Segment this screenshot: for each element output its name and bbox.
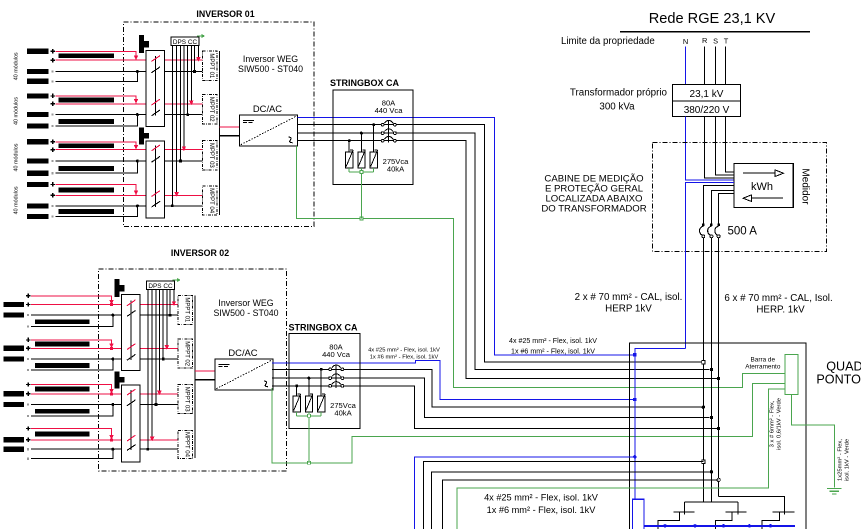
svg-text:MPPT 04: MPPT 04 <box>208 188 214 214</box>
label 80A 440 Vca stringbox 1 <box>375 98 404 115</box>
switch blade - (black) group y=114.6 <box>152 110 161 116</box>
svg-text:2 x # 70 mm² - CAL, isol.: 2 x # 70 mm² - CAL, isol. <box>575 292 683 303</box>
switch blade + (red) group y=149.6 <box>152 145 161 151</box>
wire S inverter1 AC out <box>297 133 709 369</box>
PV string array 2.3 (40 módulos) <box>3 382 89 417</box>
wire - string 1.3a (black) to MPPT <box>56 160 203 162</box>
wire DC+ to converter 1 (red) <box>220 126 240 128</box>
fuse F2 500A (phase S) <box>708 224 713 238</box>
svg-text:40 módulos: 40 módulos <box>14 97 20 125</box>
switch blade + (red) group y=195.3 <box>152 191 161 197</box>
bus S vertical in quadro <box>710 369 712 501</box>
svg-text:1x25mm² - Flex,: 1x25mm² - Flex, <box>838 439 844 481</box>
wire + string 2.4b (red) to MPPT <box>31 439 178 441</box>
DPS wire black group 2.3 <box>155 289 158 405</box>
wire - string 1.2a (black) to MPPT <box>56 114 203 116</box>
node S / stringbox1 <box>710 368 713 371</box>
meter arrow out (left-pointing) <box>743 195 783 202</box>
node PE2 at varistor drop <box>307 461 310 464</box>
svg-text:MPPT 03: MPPT 03 <box>183 387 189 413</box>
svg-text:MPPT 01: MPPT 01 <box>208 53 214 79</box>
MPPT 01 box inverter 1 <box>203 51 217 81</box>
quadro geral box <box>629 343 806 529</box>
node T / stringbox2 <box>717 427 720 430</box>
node - merge 1.2 <box>136 113 139 116</box>
DPS wire red group 1.4 <box>174 45 178 196</box>
fuse F1 500A (phase R) <box>700 224 705 238</box>
svg-text:440 Vca: 440 Vca <box>375 106 404 115</box>
node PE1 at varistor drop <box>360 217 363 220</box>
node varistor ground 1 <box>360 170 363 173</box>
svg-text:4x #25 mm² - Flex, isol. 1kV: 4x #25 mm² - Flex, isol. 1kV <box>368 348 440 354</box>
switch blade + (red) group y=60.2 <box>152 56 161 62</box>
label 275Vca 40kA stringbox 1 <box>383 157 410 174</box>
label: Limite da propriedade <box>561 36 655 47</box>
DPS wire black group 1.2 <box>186 45 189 116</box>
varistor tap 1.2 <box>360 132 363 152</box>
wire DC- to converter 1 <box>220 135 240 137</box>
wire + string 1.3b (red) to MPPT <box>56 149 203 151</box>
varistor tap 2.1 <box>320 368 323 396</box>
label DC/AC inverter 1 <box>253 103 282 114</box>
feeder branch T header <box>719 496 785 514</box>
DC switch box 2.2 <box>122 385 141 462</box>
svg-text:Aterramento: Aterramento <box>745 364 781 371</box>
node - merge 2.4 <box>111 448 114 451</box>
node neutral bus tap 4 <box>748 524 751 527</box>
svg-text:DC/AC: DC/AC <box>253 103 282 114</box>
switch blade - (black) group y=205.9 <box>152 201 161 207</box>
meter arrow in (right-pointing) <box>743 170 784 177</box>
DC bus tap symbol 2.2 <box>115 371 125 388</box>
varistor V1.2 275Vca <box>358 150 366 172</box>
node T / stringbox1 <box>717 377 720 380</box>
svg-text:Medidor: Medidor <box>800 168 811 205</box>
wire S meter out to fuse <box>711 190 734 225</box>
wire + string 1.4a (red) with drop arrow <box>56 184 139 195</box>
label: 6 x # 70 mm2 CAL Isol HERP 1kV <box>724 293 832 316</box>
svg-text:S: S <box>713 37 718 46</box>
svg-text:40 módulos: 40 módulos <box>14 143 20 171</box>
svg-text:HERP 1kV: HERP 1kV <box>605 304 652 315</box>
switch blade + (red) group y=103.8 <box>152 99 161 105</box>
DPS wire red group 1.1 <box>196 45 200 61</box>
node - merge 2.2 <box>111 358 114 361</box>
PV string array 1.3 (40 módulos) <box>14 139 115 176</box>
PV string array 2.4 (40 módulos) <box>3 426 89 460</box>
wire - string 2.4a (black) to MPPT <box>31 448 178 450</box>
wire - string 2.1b (black) merge <box>31 315 113 326</box>
DC switch box 1.2 <box>146 141 165 218</box>
wire DC+ to converter 2 (red) <box>195 370 215 372</box>
wire T transformer to meter <box>726 117 734 172</box>
node T / bottom feed <box>717 478 720 481</box>
DPS wire red group 1.2 <box>189 45 193 105</box>
transformer T1 secondary box 380/220 V <box>673 101 741 117</box>
label 275Vca 40kA stringbox 2 <box>330 401 357 418</box>
title underline <box>620 31 810 33</box>
MPPT 04 box inverter 1 <box>203 186 217 215</box>
DPS wire red group 1.3 <box>182 45 186 151</box>
svg-text:MPPT 02: MPPT 02 <box>183 341 189 367</box>
neutral bar box (blue) <box>633 499 644 529</box>
svg-text:Transformador próprio: Transformador próprio <box>570 87 668 98</box>
wire S bottom feeder <box>432 472 712 529</box>
DPS wire red group 2.3 <box>157 289 161 395</box>
svg-text:1x #6 mm² - Flex, isol. 1kV: 1x #6 mm² - Flex, isol. 1kV <box>487 505 597 515</box>
wire N inverter1 AC out (blue) <box>297 118 633 355</box>
label 4x25mm bottom <box>484 493 599 516</box>
wire + string 1.1a (red) with drop arrow <box>56 51 139 60</box>
DC bus tap symbol 1.1 <box>139 35 149 53</box>
wire - string 2.3b (black) merge <box>31 405 113 416</box>
MPPT 03 box inverter 2 <box>178 385 192 414</box>
DPS wire black group 2.4 <box>147 289 150 450</box>
wire - string 2.2b (black) merge <box>31 359 113 370</box>
wire R inverter2 AC out <box>272 369 701 407</box>
wire - string 2.3a (black) to MPPT <box>31 404 178 406</box>
node neutral bus tap 1 <box>663 524 666 527</box>
DC switch box 1.1 <box>146 51 165 127</box>
bus R vertical in quadro <box>702 362 704 502</box>
ground wire PE2 inverter2 (green) <box>272 384 785 463</box>
svg-text:300 kVa: 300 kVa <box>599 102 635 113</box>
wire + string 1.4b (red) to MPPT <box>56 194 203 196</box>
switch blade + (red) group y=439.8 <box>127 435 136 441</box>
svg-text:380/220 V: 380/220 V <box>684 105 730 116</box>
wire R (grid drop) <box>704 47 706 85</box>
svg-text:DPS CC: DPS CC <box>148 283 173 290</box>
svg-text:4x #25 mm² - Flex, isol. 1kV: 4x #25 mm² - Flex, isol. 1kV <box>484 493 599 503</box>
node N bus / stringbox1 <box>633 353 636 356</box>
ground symbol <box>827 489 841 494</box>
wire T meter out to fuse <box>719 194 734 225</box>
breaker D2 contact bar <box>726 511 747 513</box>
wire N inverter2 AC out (blue) <box>272 361 633 400</box>
wire + string 1.2b (red) to MPPT <box>56 103 203 105</box>
svg-text:4x #25 mm² - Flex, isol. 1kV: 4x #25 mm² - Flex, isol. 1kV <box>509 337 597 345</box>
label 4x25mm mid (above quadro) <box>509 337 597 356</box>
label Inversor WEG SIW500 inverter 1 <box>238 54 303 74</box>
wire - string 1.4b (black) merge <box>56 206 138 217</box>
label INVERSOR 02 <box>171 248 229 258</box>
DPS wire black group 2.2 <box>162 289 165 360</box>
switch link bar 2.2 <box>130 390 132 450</box>
svg-text:23,1 kV: 23,1 kV <box>690 89 724 100</box>
node - merge 2.3 <box>111 403 114 406</box>
DC collector bus inverter 1 <box>219 51 221 215</box>
node R / stringbox2 <box>702 406 705 409</box>
switch link bar 1.1 <box>154 56 156 115</box>
wire R transformer to meter <box>705 117 734 179</box>
wire - string 1.4a (black) to MPPT <box>56 205 203 207</box>
title: Rede RGE 23,1 KV <box>649 11 776 27</box>
wire S transformer to meter <box>716 117 734 176</box>
switch blade + (red) group y=304.5 <box>127 300 136 306</box>
varistor tap 1.1 <box>372 123 375 152</box>
varistor V1.1 275Vca <box>370 150 378 172</box>
svg-text:INVERSOR 02: INVERSOR 02 <box>171 248 229 258</box>
DPS wire black group 1.1 <box>193 45 196 72</box>
breaker D3 blade <box>762 512 779 529</box>
PV string array 2.2 (40 módulos) <box>3 338 89 372</box>
wire R bottom feeder <box>423 462 703 529</box>
DPS CC box 1 <box>171 37 199 46</box>
MPPT 02 box inverter 2 <box>178 339 192 368</box>
wire - string 2.2a (black) to MPPT <box>31 358 178 360</box>
label: CABINE DE MEDICAO text block <box>541 174 646 215</box>
svg-text:SIW500 - ST040: SIW500 - ST040 <box>213 308 278 318</box>
label: 500 A <box>728 225 758 237</box>
MPPT 04 box inverter 2 <box>178 431 192 459</box>
transformer T1 primary box 23,1 kV <box>673 85 741 101</box>
label 1x25mm2 verde (rotated) <box>838 439 851 481</box>
DPS ground arrow 1 (green) <box>197 34 205 38</box>
svg-text:3 x # 6mm² - Flex,: 3 x # 6mm² - Flex, <box>770 400 776 447</box>
stringbox CA 1 box <box>333 90 413 185</box>
switch blade - (black) group y=161.0 <box>152 156 161 162</box>
DPS wire black group 1.4 <box>171 45 174 207</box>
stringbox CA 2 label <box>288 323 358 333</box>
bus T vertical in quadro <box>718 379 720 497</box>
wire T inverter2 AC out <box>272 386 717 429</box>
svg-text:QUADRO: QUADRO <box>826 359 861 373</box>
MPPT 03 box inverter 1 <box>203 140 217 170</box>
wire - string 1.1a (black) to MPPT <box>56 71 203 73</box>
wire N bottom feeder (blue) <box>414 457 635 529</box>
node varistor ground 2 <box>307 414 310 417</box>
svg-text:STRINGBOX CA: STRINGBOX CA <box>330 78 400 88</box>
svg-text:MPPT 03: MPPT 03 <box>208 143 214 169</box>
inverter 2 enclosure (dash-dot) <box>99 269 287 471</box>
varistor V2.1 275Vca <box>318 394 326 416</box>
node neutral bus tap 5 <box>769 524 772 527</box>
breaker Q2 link bar <box>335 365 337 388</box>
switch blade - (black) group y=449.2 <box>127 445 136 451</box>
wire + string 1.2a (red) with drop arrow <box>56 96 139 104</box>
switch link bar 2.1 <box>130 301 132 361</box>
svg-text:Inversor WEG: Inversor WEG <box>243 54 298 64</box>
node S / bottom feed <box>710 470 713 473</box>
label 3x6mm2 verde (rotated) <box>770 398 783 450</box>
node neutral bus tap 2 <box>693 524 696 527</box>
inverter 1 enclosure (dash-dot) <box>123 22 314 226</box>
svg-text:1x #6 mm² - Flex, isol. 1kV: 1x #6 mm² - Flex, isol. 1kV <box>370 355 439 361</box>
svg-text:isol. 0,6/1kV - Verde: isol. 0,6/1kV - Verde <box>777 398 783 450</box>
svg-text:500 A: 500 A <box>728 225 758 237</box>
switch blade - (black) group y=359.0 <box>127 354 136 360</box>
ground link varistors stringbox 1 (green) <box>349 171 374 173</box>
inverter U2 DC/AC converter <box>215 359 273 390</box>
stringbox CA 1 label <box>330 78 400 88</box>
stringbox CA 2 box <box>289 334 360 429</box>
wire + string 2.3b (red) to MPPT <box>31 393 178 395</box>
svg-text:MPPT 02: MPPT 02 <box>208 97 214 123</box>
varistor V2.2 275Vca <box>305 394 313 416</box>
wire - string 2.1a (black) to MPPT <box>31 314 178 316</box>
svg-text:6 x # 70 mm² - CAL, Isol.: 6 x # 70 mm² - CAL, Isol. <box>724 293 832 304</box>
fuse F3 500A (phase T) <box>715 224 720 238</box>
node R / bottom feed (open) <box>702 460 705 463</box>
DPS wire red group 2.4 <box>150 289 154 441</box>
label INVERSOR 01 <box>196 9 254 19</box>
node N bus / stringbox2 <box>633 398 636 401</box>
feeder branch R+S header <box>684 501 738 503</box>
wire N transformer to meter (blue) <box>686 117 734 181</box>
wire varistor ground drop 2 (green) <box>308 417 310 463</box>
varistor V1.3 275Vca <box>346 150 354 172</box>
switch blade + (red) group y=393.8 <box>127 389 136 395</box>
wire R fuse to quadro <box>702 238 704 362</box>
svg-text:Barra de: Barra de <box>751 357 776 364</box>
meter U1 kWh box <box>734 163 793 207</box>
PV string array 1.4 (40 módulos) <box>14 182 115 219</box>
wire S fuse to quadro <box>710 238 712 370</box>
ground link varistors stringbox 2 (green) <box>297 415 322 417</box>
wire T bottom feeder <box>443 480 719 529</box>
feeder drop S <box>737 502 739 515</box>
wire T (grid drop) <box>725 47 727 85</box>
wire + string 2.2b (red) to MPPT <box>31 347 178 349</box>
neutral distribution bus (blue) <box>644 525 795 527</box>
svg-text:40 módulos: 40 módulos <box>14 52 20 80</box>
DC collector bus inverter 2 <box>194 296 196 459</box>
inverter U1 DC/AC converter <box>239 115 297 146</box>
wire - string 1.1b (black) merge <box>56 72 138 82</box>
svg-text:440 Vca: 440 Vca <box>322 350 351 359</box>
DPS CC box 2 <box>147 281 175 290</box>
wire + string 2.2a (red) with drop arrow <box>31 340 114 350</box>
node labels N R S T <box>683 36 729 46</box>
ground wire PE1 inverter1 (green) <box>296 146 785 388</box>
breaker Q1 pole 2 <box>381 129 396 135</box>
node - merge 1.1 <box>136 70 139 73</box>
DPS wire red group 2.2 <box>165 289 169 349</box>
DPS wire red group 2.1 <box>172 289 176 306</box>
wire varistor ground drop 1 (green) <box>360 173 362 218</box>
varistor tap 2.2 <box>307 377 310 396</box>
svg-text:isol. 1kV - Verde: isol. 1kV - Verde <box>845 439 851 481</box>
varistor tap 2.3 <box>295 384 298 396</box>
label: Transformador proprio 300 kVa <box>570 87 668 112</box>
node neutral bus tap 3 <box>722 524 725 527</box>
svg-text:1x #6 mm² - Flex, isol. 1kV: 1x #6 mm² - Flex, isol. 1kV <box>511 348 595 356</box>
svg-text:MPPT 04: MPPT 04 <box>183 432 189 458</box>
breaker Q1 pole 3 <box>381 136 396 142</box>
breaker Q1 pole 1 <box>381 120 396 126</box>
wire N (grid drop, blue) <box>685 47 687 85</box>
switch blade + (red) group y=348.3 <box>127 344 136 350</box>
feeder drop R <box>683 502 685 515</box>
wire S inverter2 AC out <box>272 378 709 418</box>
wire R meter out to fuse <box>703 186 734 225</box>
wire DC- to converter 2 <box>195 379 215 381</box>
switch link bar 1.2 <box>154 146 156 207</box>
svg-text:R: R <box>702 36 707 45</box>
wire T fuse to quadro <box>718 238 720 379</box>
switch blade - (black) group y=404.5 <box>127 400 136 406</box>
wire T inverter1 AC out <box>297 141 716 379</box>
svg-text:SIW500 - ST040: SIW500 - ST040 <box>238 64 303 74</box>
label Inversor WEG SIW500 inverter 2 <box>213 298 278 318</box>
label: Medidor (rotated) <box>800 168 811 205</box>
node - merge 1.4 <box>136 204 139 207</box>
svg-text:DO TRANSFORMADOR: DO TRANSFORMADOR <box>541 204 646 215</box>
breaker D1 blade <box>658 512 680 529</box>
svg-text:Rede RGE 23,1 KV: Rede RGE 23,1 KV <box>649 11 776 27</box>
DC bus tap symbol 2.1 <box>115 279 125 297</box>
node S / stringbox2 <box>710 416 713 419</box>
label 80A 440 Vca stringbox 2 <box>322 342 351 359</box>
svg-text:Limite da propriedade: Limite da propriedade <box>561 36 655 47</box>
earth bar (Barra de Aterramento) <box>785 355 798 395</box>
breaker D2 blade <box>715 512 732 529</box>
svg-text:INVERSOR 01: INVERSOR 01 <box>196 9 254 19</box>
wire + string 1.1b (red) to MPPT <box>56 59 203 61</box>
breaker Q2 pole 2 <box>329 374 344 380</box>
wire + string 2.3a (red) with drop arrow <box>31 385 114 396</box>
svg-text:STRINGBOX CA: STRINGBOX CA <box>288 323 358 333</box>
wire - string 1.2b (black) merge <box>56 115 138 127</box>
label DC/AC inverter 2 <box>228 347 257 358</box>
ground wire PE bottom feeder (green) <box>457 389 785 529</box>
breaker Q1 link bar <box>388 120 390 143</box>
PV string array 2.1 (40 módulos) <box>3 294 89 328</box>
breaker Q2 pole 3 <box>329 382 344 388</box>
cabine de medicao enclosure (dash-dot) <box>653 143 827 252</box>
svg-text:kWh: kWh <box>751 181 773 193</box>
PV string array 1.2 (40 módulos) <box>14 93 115 128</box>
node - merge 1.3 <box>136 160 139 163</box>
DPS ground arrow 2 (green) <box>173 278 181 282</box>
wire - string 1.3b (black) merge <box>56 161 138 173</box>
DPS wire black group 2.1 <box>169 289 172 316</box>
wire + string 2.4a (red) with drop arrow <box>31 429 114 442</box>
svg-text:DC/AC: DC/AC <box>228 347 257 358</box>
wire N meter out (blue) <box>686 183 734 349</box>
DC bus tap symbol 1.2 <box>139 127 149 144</box>
label 4x25mm small near stringbox2 <box>368 348 440 361</box>
svg-text:40 módulos: 40 módulos <box>14 186 20 214</box>
node - merge 2.1 <box>111 314 114 317</box>
svg-text:40kA: 40kA <box>387 164 405 173</box>
breaker Q2 pole 1 <box>329 365 344 371</box>
DPS wire black group 1.3 <box>179 45 182 162</box>
svg-text:Inversor WEG: Inversor WEG <box>218 298 273 308</box>
wire - string 2.4b (black) merge <box>31 449 113 459</box>
wire S (grid drop) <box>715 47 717 85</box>
svg-text:MPPT 01: MPPT 01 <box>183 297 189 323</box>
switch blade - (black) group y=71.5 <box>152 67 161 73</box>
DC switch box 2.1 <box>122 295 141 371</box>
svg-text:40kA: 40kA <box>334 408 352 417</box>
wire + string 1.3a (red) with drop arrow <box>56 142 139 150</box>
wire + string 2.1a (red) with drop arrow <box>31 296 114 306</box>
node N bus / bottom feed <box>633 455 636 458</box>
bus N vertical (blue) <box>635 349 686 500</box>
MPPT 01 box inverter 2 <box>178 295 192 324</box>
label QUADRO (cut at edge) <box>816 359 861 386</box>
svg-text:N: N <box>683 37 688 46</box>
svg-text:T: T <box>724 37 729 46</box>
wire + string 2.1b (red) to MPPT <box>31 304 178 306</box>
switch blade - (black) group y=315.1 <box>127 311 136 317</box>
breaker D3 contact bar <box>773 511 795 513</box>
svg-text:PONTO CO: PONTO CO <box>816 373 861 387</box>
breaker D1 contact bar <box>673 511 694 513</box>
wire R inverter1 AC out <box>297 125 701 363</box>
varistor tap 1.3 <box>348 139 351 152</box>
